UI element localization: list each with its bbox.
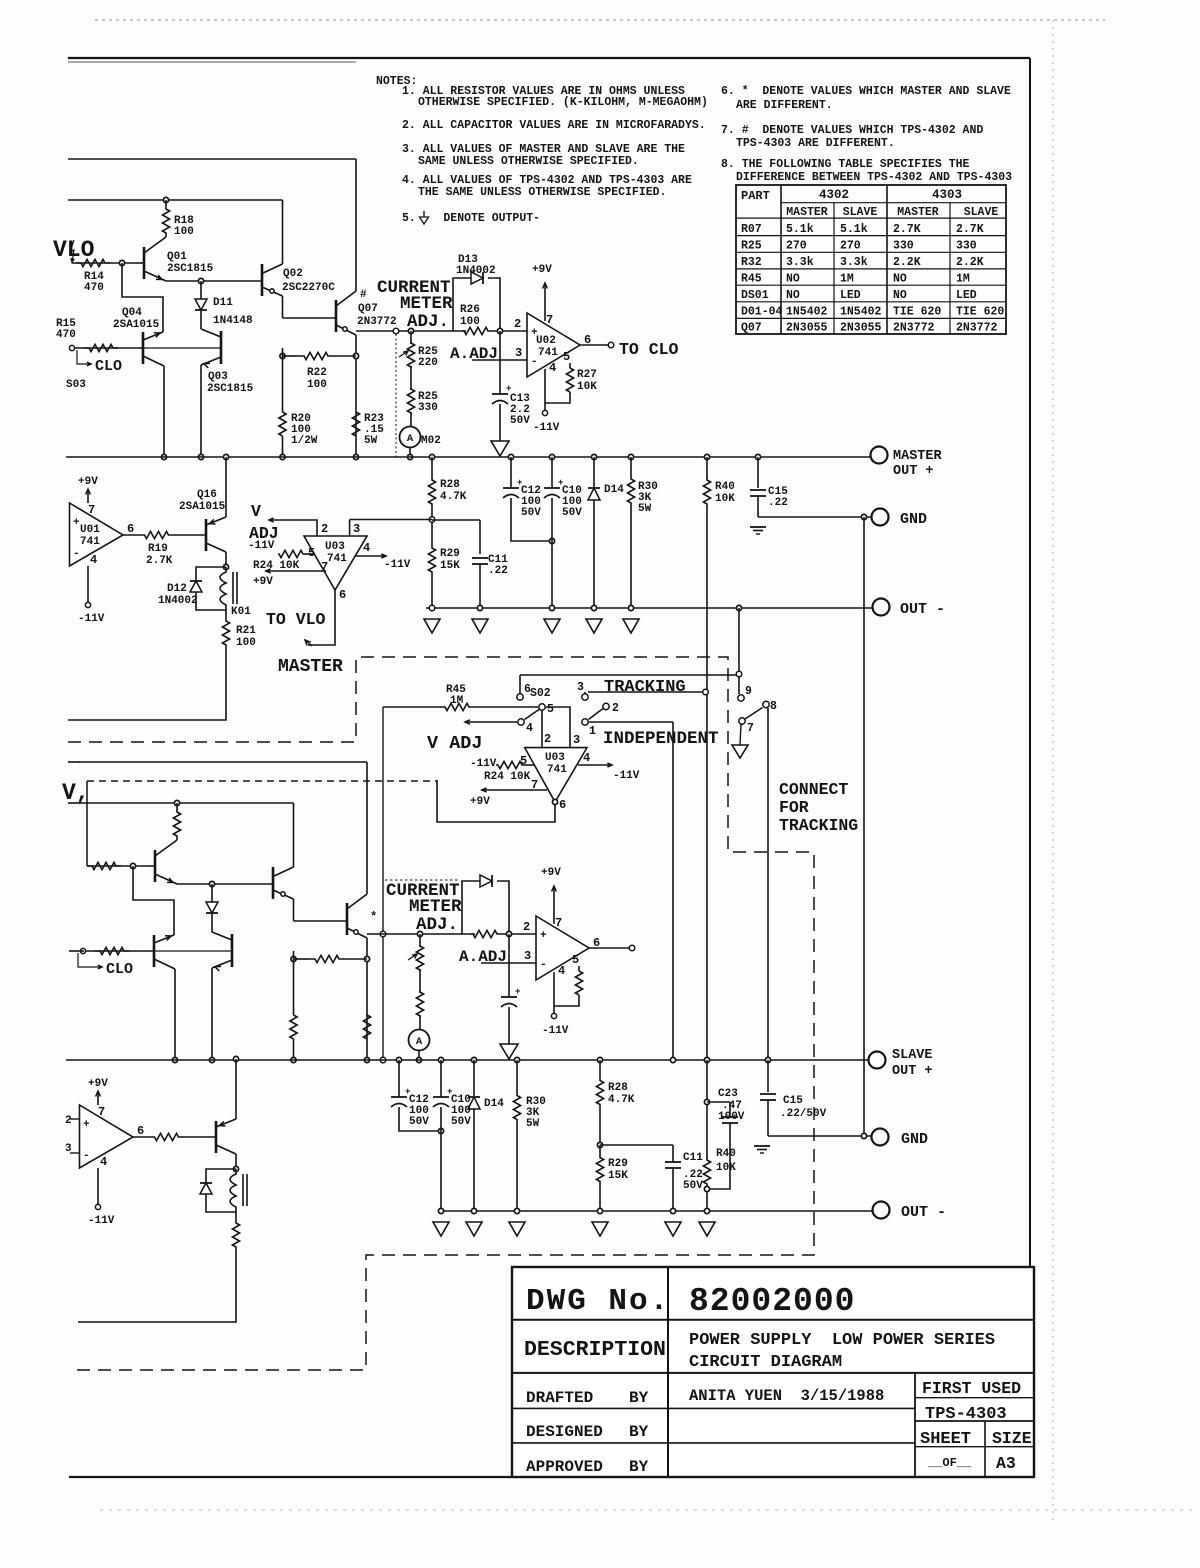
wire top rail: [79, 761, 367, 763]
svg-text:3: 3: [524, 949, 531, 963]
label CLO with arrow: [77, 350, 90, 364]
svg-text:6: 6: [137, 1124, 144, 1138]
capacitor (slave C13): [508, 934, 510, 997]
resistor (slave R22): [291, 956, 296, 961]
svg-text:9: 9: [745, 685, 752, 698]
terminal GND slave: [872, 1129, 889, 1146]
svg-text:6: 6: [127, 522, 134, 536]
svg-text:SLAVE: SLAVE: [964, 206, 999, 219]
wire contact 5 to pin 2: [541, 711, 543, 747]
opamp output wire: [589, 947, 629, 949]
ground triangles under slave OUT- rail: [438, 1208, 443, 1213]
capacitor C11: [472, 557, 488, 559]
svg-text:A: A: [416, 1036, 423, 1048]
slave meter box dotted top: [385, 879, 460, 881]
svg-text:2: 2: [321, 522, 328, 536]
svg-text:.22: .22: [488, 565, 508, 577]
svg-text:+: +: [73, 517, 80, 529]
svg-text:4.7K: 4.7K: [608, 1094, 635, 1106]
svg-text:4: 4: [549, 361, 556, 375]
svg-text:3: 3: [353, 522, 360, 536]
svg-text:__OF__: __OF__: [927, 1456, 972, 1470]
svg-text:FOR: FOR: [779, 798, 809, 817]
resistor R30: [628, 454, 633, 459]
resistor R18: [163, 197, 168, 202]
svg-text:GND: GND: [901, 1131, 928, 1148]
svg-text:50V: 50V: [562, 507, 582, 519]
svg-text:5: 5: [308, 546, 315, 560]
svg-text:6. * DENOTE VALUES WHICH MAST: 6. * DENOTE VALUES WHICH MASTER AND SLAV…: [721, 85, 1011, 98]
svg-text:50V: 50V: [521, 507, 541, 519]
svg-text:V ADJ: V ADJ: [427, 733, 483, 754]
svg-text:2.7K: 2.7K: [146, 555, 173, 567]
wire base line VLO: [87, 865, 151, 867]
svg-text:C15: C15: [783, 1095, 803, 1107]
svg-text:6: 6: [524, 683, 531, 696]
resistor R14: [76, 259, 110, 266]
connect-for-tracking switch 9 8 7: [738, 695, 744, 701]
resistor R28: [429, 454, 434, 459]
svg-text:100: 100: [174, 226, 194, 238]
svg-text:SLAVE: SLAVE: [892, 1048, 933, 1063]
svg-text:METER: METER: [409, 897, 462, 917]
svg-text:2. ALL CAPACITOR VALUES ARE IN: 2. ALL CAPACITOR VALUES ARE IN MICROFARA…: [402, 119, 706, 132]
svg-text:U03: U03: [325, 541, 345, 553]
svg-text:Q07: Q07: [358, 303, 378, 315]
svg-text:CIRCUIT DIAGRAM: CIRCUIT DIAGRAM: [689, 1353, 842, 1372]
wire GND line: [758, 516, 871, 518]
resistor R29: [431, 522, 433, 547]
resistor (slave R18): [174, 800, 179, 805]
svg-text:2N3772: 2N3772: [956, 322, 998, 335]
svg-text:OUT -: OUT -: [900, 601, 945, 618]
svg-text:2.2K: 2.2K: [893, 256, 921, 269]
resistor (slave R27): [578, 966, 580, 971]
svg-text:DESCRIPTION: DESCRIPTION: [524, 1338, 666, 1362]
pin 4 -11V wire: [355, 555, 386, 557]
resistor R40 slave: [704, 1057, 709, 1062]
svg-text:-11V: -11V: [470, 758, 497, 770]
resistor (slave R15): [95, 947, 129, 954]
svg-text:R28: R28: [440, 479, 460, 491]
dashed boundary master/tracking/slave: [68, 657, 814, 1370]
wire contact 8 down to slave C15: [767, 708, 769, 1060]
svg-text:MASTER: MASTER: [278, 657, 343, 677]
wire base line CLO: [69, 345, 74, 350]
svg-text:2: 2: [514, 317, 521, 331]
svg-text:1M: 1M: [450, 695, 464, 707]
capacitor C11 slave: [672, 1145, 674, 1162]
svg-text:.22/50V: .22/50V: [780, 1108, 827, 1120]
svg-text:+9V: +9V: [253, 576, 273, 588]
svg-text:CLO: CLO: [95, 358, 122, 375]
wire pin 3 riser tracking opamp: [546, 707, 570, 747]
wire OUT- rail: [426, 607, 878, 609]
wire MASTER OUT+ rail: [66, 456, 871, 458]
-11V supply: [553, 972, 555, 1014]
ground under contact 7: [740, 724, 741, 745]
svg-text:50V: 50V: [510, 415, 530, 427]
svg-text:3.3k: 3.3k: [840, 256, 868, 269]
resistor R28 slave: [597, 1057, 602, 1062]
wire INDEPENDENT contact 1: [589, 721, 673, 723]
transistor Q03: [220, 331, 223, 364]
svg-text:MASTER: MASTER: [897, 206, 939, 219]
svg-text:7. # DENOTE VALUES WHICH TPS-: 7. # DENOTE VALUES WHICH TPS-4302 AND: [721, 124, 983, 137]
svg-text:GND: GND: [900, 511, 927, 528]
output ground triangle: [500, 1044, 518, 1059]
arrow wire to contact 4: [465, 721, 517, 723]
resistor R27: [569, 363, 571, 368]
output ground triangle: [491, 441, 509, 456]
svg-text:SHEET: SHEET: [920, 1430, 971, 1449]
svg-text:100: 100: [460, 316, 480, 328]
svg-text:+9V: +9V: [541, 867, 561, 879]
wire A.ADJ to pin 3: [481, 962, 536, 964]
resistor (slave R19): [133, 1136, 151, 1138]
transistor Q16 2SA1015: [223, 454, 228, 459]
transistor (slave Q03): [231, 934, 234, 967]
terminal SLAVE OUT+: [869, 1052, 886, 1069]
svg-text:BY: BY: [629, 1389, 649, 1407]
node wire R28/R29 to C11: [429, 517, 435, 523]
svg-text:-11V: -11V: [88, 1215, 115, 1227]
ground triangles under OUT- rail: [477, 605, 482, 610]
svg-text:TPS-4303 ARE DIFFERENT.: TPS-4303 ARE DIFFERENT.: [736, 137, 895, 150]
capacitor C10 slave: [438, 1057, 443, 1062]
svg-text:7: 7: [88, 503, 95, 517]
svg-text:220: 220: [418, 357, 438, 369]
svg-text:4: 4: [526, 722, 533, 735]
svg-text:+: +: [540, 930, 547, 942]
svg-text:2SA1015: 2SA1015: [113, 319, 160, 331]
svg-text:4: 4: [363, 541, 370, 555]
transistor Q02: [282, 200, 284, 264]
resistor R25 330: [410, 366, 412, 390]
resistor R40: [704, 454, 709, 459]
capacitor C15 slave: [765, 1057, 770, 1062]
svg-text:S02: S02: [530, 687, 551, 700]
resistor R22: [280, 353, 285, 358]
svg-text:Q16: Q16: [197, 489, 217, 501]
transistor (slave Q01): [154, 850, 157, 882]
capacitor C12 slave: [396, 1057, 401, 1062]
capacitor C12: [508, 454, 513, 459]
svg-text:330: 330: [893, 240, 914, 253]
svg-text:R25: R25: [741, 240, 762, 253]
svg-text:DS01: DS01: [741, 289, 769, 302]
svg-text:7: 7: [98, 1105, 105, 1119]
opamp U03 741 tracking: [525, 748, 587, 802]
svg-text:DWG No.: DWG No.: [526, 1284, 670, 1319]
svg-text:TO CLO: TO CLO: [619, 340, 679, 359]
title block outer box: [512, 1267, 1034, 1477]
svg-text:-: -: [73, 548, 80, 560]
resistor (slave R21): [235, 1212, 237, 1222]
svg-text:A: A: [407, 433, 414, 445]
wire R40 down to tracking: [706, 506, 708, 1060]
svg-text:4: 4: [100, 1155, 107, 1169]
resistor (slave R20): [290, 1015, 297, 1039]
svg-text:82002000: 82002000: [689, 1283, 855, 1320]
capacitor C15: [755, 454, 760, 459]
svg-text:7: 7: [321, 560, 328, 574]
svg-text:50V: 50V: [409, 1116, 429, 1128]
svg-text:DRAFTED: DRAFTED: [526, 1389, 593, 1407]
switch S02 contacts 3 2 1: [582, 694, 588, 700]
wire slave GND line: [768, 1135, 871, 1137]
svg-text:MASTER: MASTER: [893, 449, 943, 464]
svg-text:SAME UNLESS OTHERWISE SPECIFIE: SAME UNLESS OTHERWISE SPECIFIED.: [418, 155, 639, 168]
transistor (slave Q16): [233, 1056, 238, 1061]
svg-text:4303: 4303: [932, 188, 962, 202]
+9V supply arrow: [544, 283, 546, 321]
svg-text:4: 4: [90, 553, 97, 567]
svg-text:2: 2: [523, 920, 530, 934]
svg-text:3.3k: 3.3k: [786, 256, 814, 269]
svg-text:MASTER: MASTER: [786, 206, 828, 219]
svg-text:+: +: [83, 1119, 90, 1131]
svg-text:3: 3: [573, 733, 580, 747]
svg-text:4: 4: [583, 751, 590, 765]
pin 4 -11V wire tracking: [578, 764, 612, 766]
title block grid lines: [667, 1267, 669, 1477]
ammeter M02: [400, 427, 421, 448]
svg-text:-: -: [531, 356, 538, 368]
svg-text:R32: R32: [741, 256, 762, 269]
svg-text:741: 741: [538, 347, 558, 359]
svg-text:THE SAME UNLESS OTHERWISE SPEC: THE SAME UNLESS OTHERWISE SPECIFIED.: [418, 186, 666, 199]
svg-text:D11: D11: [213, 297, 233, 309]
svg-text:R27: R27: [577, 369, 597, 381]
svg-text:R29: R29: [608, 1158, 628, 1170]
svg-text:3: 3: [515, 346, 522, 360]
transistor (slave Q02): [293, 803, 295, 867]
svg-text:S03: S03: [66, 379, 86, 391]
svg-text:Q07: Q07: [741, 322, 762, 335]
svg-text:A.ADJ: A.ADJ: [450, 345, 498, 363]
wire base line CLO: [80, 948, 85, 953]
svg-text:2N3772: 2N3772: [893, 322, 935, 335]
svg-text:15K: 15K: [440, 560, 460, 572]
opamp U03 741 master: [304, 536, 367, 590]
+9V supply arrow: [553, 886, 555, 924]
relay (slave) with diode: [233, 1166, 238, 1171]
wire Q02 emitter to Q07 base: [293, 899, 295, 921]
svg-text:OUT +: OUT +: [892, 1064, 933, 1079]
terminal MASTER OUT+: [871, 447, 888, 464]
wire down to slave rail: [672, 722, 674, 1060]
svg-text:10K: 10K: [577, 381, 597, 393]
wire TRACKING to master V node: [588, 691, 703, 693]
resistor R45 1M: [383, 706, 437, 708]
junction dots on lower rail: [161, 454, 166, 459]
capacitor C23 slave: [704, 1099, 709, 1104]
resistor R29 slave: [599, 1145, 601, 1154]
svg-text:DESIGNED: DESIGNED: [526, 1423, 603, 1441]
svg-text:5: 5: [520, 754, 527, 768]
svg-text:BY: BY: [629, 1458, 649, 1476]
wire Q01 emitter to Q02 base: [177, 883, 273, 885]
svg-text:1M: 1M: [840, 272, 854, 285]
svg-text:+9V: +9V: [88, 1078, 108, 1090]
svg-text:TIE 620: TIE 620: [956, 306, 1004, 319]
svg-text:TRACKING: TRACKING: [779, 816, 858, 835]
svg-text:TRACKING: TRACKING: [604, 678, 686, 697]
wire A.ADJ to pin 3: [472, 359, 527, 361]
svg-text:4: 4: [558, 964, 565, 978]
svg-text:R40: R40: [715, 481, 735, 493]
svg-text:1N5402: 1N5402: [786, 306, 828, 319]
svg-text:2.7K: 2.7K: [956, 223, 984, 236]
svg-text:-11V: -11V: [533, 422, 560, 434]
svg-text:5W: 5W: [526, 1118, 540, 1130]
svg-text:R28: R28: [608, 1082, 628, 1094]
opamp (slave U01): [80, 1105, 134, 1168]
svg-text:8: 8: [770, 700, 777, 713]
svg-text:-11V: -11V: [384, 559, 411, 571]
wire Q03 base: [143, 347, 221, 349]
svg-text:2SA1015: 2SA1015: [179, 501, 226, 513]
diode (slave D11): [209, 881, 214, 886]
junction slave rail x=673: [670, 1057, 675, 1062]
-11V supply for opamp: [97, 1168, 99, 1204]
svg-text:-: -: [540, 959, 547, 971]
svg-text:Q03: Q03: [208, 371, 228, 383]
svg-text:+9V: +9V: [532, 264, 552, 276]
transistor Q07: [335, 300, 338, 332]
wire R45 down to slave rail: [382, 707, 384, 1060]
svg-text:LED: LED: [840, 289, 861, 302]
svg-text:TPS-4303: TPS-4303: [925, 1405, 1007, 1424]
slave rail left extensions: [68, 761, 80, 763]
resistor (slave R23): [363, 1015, 370, 1039]
svg-text:R19: R19: [148, 543, 168, 555]
svg-text:1N4148: 1N4148: [213, 315, 253, 327]
svg-text:FIRST USED: FIRST USED: [922, 1379, 1021, 1398]
potentiometer wiper dotted: [395, 334, 397, 457]
opamp U01 741: [70, 503, 124, 566]
VLO arrow: [70, 240, 74, 262]
svg-text:R45: R45: [741, 272, 762, 285]
resistor R20: [279, 412, 286, 436]
svg-text:100: 100: [236, 637, 256, 649]
svg-text:50V: 50V: [683, 1180, 703, 1192]
label CLO slave with arrow: [78, 953, 101, 967]
svg-text:R40: R40: [716, 1148, 736, 1160]
svg-text:POWER SUPPLY LOW POWER SERIES: POWER SUPPLY LOW POWER SERIES: [689, 1331, 995, 1350]
note 5 output symbol: [423, 211, 425, 217]
svg-text:470: 470: [56, 329, 76, 341]
svg-text:100: 100: [307, 379, 327, 391]
svg-text:1N4002: 1N4002: [456, 265, 496, 277]
resistor (slave R25a): [417, 931, 422, 936]
svg-text:D14: D14: [484, 1098, 504, 1110]
svg-text:5W: 5W: [638, 503, 652, 515]
svg-text:LED: LED: [956, 289, 977, 302]
svg-text:-: -: [83, 1150, 90, 1162]
svg-text:U03: U03: [545, 752, 565, 764]
svg-text:5W: 5W: [364, 435, 378, 447]
wire tracking top: [520, 674, 737, 676]
svg-text:V,: V,: [62, 780, 90, 806]
transistor (slave Q07): [346, 903, 349, 935]
-11V supply: [544, 369, 546, 411]
wire slave V ADJ line dashed: [87, 780, 437, 782]
svg-text:INDEPENDENT: INDEPENDENT: [603, 729, 719, 749]
svg-text:10K: 10K: [715, 493, 735, 505]
svg-text:-11V: -11V: [613, 770, 640, 782]
svg-text:2.2K: 2.2K: [956, 256, 984, 269]
wire Q01 emitter to Q02 base: [166, 280, 262, 282]
svg-text:470: 470: [84, 282, 104, 294]
svg-text:-11V: -11V: [78, 613, 105, 625]
svg-text:C23: C23: [718, 1088, 738, 1100]
svg-text:.22: .22: [768, 497, 788, 509]
svg-text:BY: BY: [629, 1423, 649, 1441]
svg-text:5.1k: 5.1k: [840, 223, 868, 236]
svg-text:NO: NO: [786, 289, 800, 302]
svg-text:330: 330: [956, 240, 977, 253]
diode D14 slave: [471, 1057, 476, 1062]
svg-text:2N3055: 2N3055: [840, 322, 882, 335]
svg-text:6: 6: [339, 588, 346, 602]
relay K01 with diode D12: [223, 564, 228, 569]
svg-text:4.7K: 4.7K: [440, 491, 467, 503]
svg-text:ANITA YUEN 3/15/1988: ANITA YUEN 3/15/1988: [689, 1387, 884, 1405]
svg-text:R24 10K: R24 10K: [484, 771, 531, 783]
svg-text:NO: NO: [786, 272, 800, 285]
wire second rail: [79, 802, 294, 804]
resistor R26: [462, 327, 490, 334]
svg-text:7: 7: [747, 722, 754, 735]
page border frame: [95, 19, 1105, 21]
svg-text:#: #: [360, 289, 367, 301]
svg-text:2.7K: 2.7K: [893, 223, 921, 236]
resistor R15: [84, 344, 118, 351]
svg-text:Q04: Q04: [122, 307, 142, 319]
svg-text:2SC2270C: 2SC2270C: [282, 282, 335, 294]
resistor (slave R25b): [419, 969, 421, 993]
resistor R19: [123, 534, 141, 536]
svg-text:CONNECT: CONNECT: [779, 780, 848, 799]
svg-text:10K: 10K: [716, 1162, 736, 1174]
svg-text:1M: 1M: [956, 272, 970, 285]
svg-text:D12: D12: [167, 583, 187, 595]
+9V pin 7 wire: [265, 570, 326, 572]
svg-text:OUT +: OUT +: [893, 464, 934, 479]
resistor R30 slave: [514, 1057, 519, 1062]
node wire slave R28/R29 to C11: [597, 1142, 602, 1147]
svg-text:+9V: +9V: [78, 476, 98, 488]
svg-text:2SC1815: 2SC1815: [167, 263, 214, 275]
svg-text:3: 3: [577, 681, 584, 694]
svg-text:OUT -: OUT -: [901, 1204, 946, 1221]
+9V pin 7 wire tracking: [481, 789, 547, 791]
svg-text:M02: M02: [421, 435, 441, 447]
wire SLAVE OUT+ rail: [66, 1059, 869, 1061]
svg-text:SIZE: SIZE: [992, 1429, 1032, 1448]
resistor R25 220: [408, 328, 413, 333]
svg-text:2N3055: 2N3055: [786, 322, 828, 335]
svg-text:SLAVE: SLAVE: [843, 206, 878, 219]
+9V supply for opamp: [97, 1091, 99, 1105]
svg-text:NO: NO: [893, 289, 907, 302]
resistor R21: [225, 610, 227, 620]
svg-text:C11: C11: [683, 1152, 703, 1164]
svg-text:OTHERWISE SPECIFIED. (K-KILOHM: OTHERWISE SPECIFIED. (K-KILOHM, M-MEGAOH…: [418, 96, 708, 109]
wire OUT- to connect-switch: [736, 605, 741, 610]
